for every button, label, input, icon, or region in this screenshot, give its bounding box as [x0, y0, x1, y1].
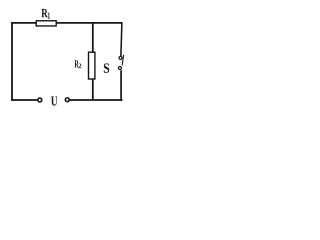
wire: middle branch bottom (R2 to bottom wire)	[92, 79, 94, 100]
label R1	[41, 9, 49, 19]
terminal: U left	[38, 98, 42, 102]
wire: middle branch top (junction to R2)	[92, 22, 94, 52]
wire: top horizontal	[11, 22, 122, 24]
switch S blade	[122, 55, 124, 66]
wire: bottom right segment	[70, 99, 123, 101]
wire: bottom left segment	[11, 99, 37, 101]
wire: right vertical upper (corner to switch)	[121, 22, 122, 56]
wire: right vertical lower (switch to corner)	[120, 70, 122, 101]
label R2	[74, 60, 81, 68]
label U	[51, 97, 57, 106]
resistor R2	[89, 52, 95, 79]
switch S bottom terminal	[118, 67, 121, 70]
wire: left vertical	[11, 22, 13, 101]
label S	[104, 63, 109, 72]
resistor R1	[36, 21, 56, 26]
switch S top terminal	[119, 56, 122, 59]
terminal: U right	[65, 98, 69, 102]
